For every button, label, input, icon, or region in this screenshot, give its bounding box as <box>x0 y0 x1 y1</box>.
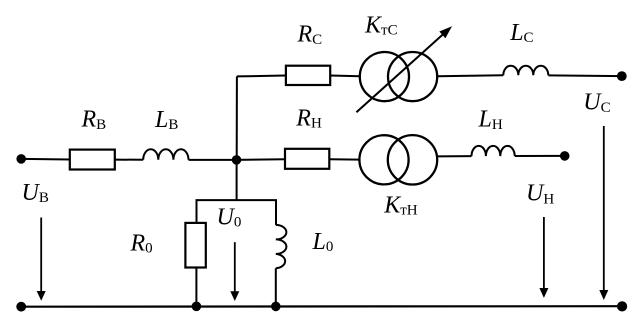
voltage arrow U_0 <box>234 242 236 292</box>
wire: L_C to medium-voltage terminal <box>548 74 622 77</box>
wire: riser from node A up to top branch <box>236 76 238 159</box>
svg-text:UН: UН <box>526 181 554 208</box>
inductor L_0 <box>276 225 287 268</box>
wire: node A down to shunt bar <box>236 160 238 200</box>
wire: R_C to K_tC <box>330 75 360 78</box>
transformer K_tH circle 2 <box>388 135 437 184</box>
wire: R_H to K_tH <box>329 158 359 160</box>
svg-text:LВ: LВ <box>154 107 178 133</box>
svg-text:UВ: UВ <box>22 180 49 206</box>
transformer K_tH circle 1 <box>359 135 408 184</box>
node: left input terminal <box>16 154 26 164</box>
svg-text:L0: L0 <box>312 229 334 255</box>
wire: K_tC to L_C <box>437 74 503 77</box>
node: L_0 rail junction <box>271 302 281 312</box>
svg-text:KтН: KтН <box>383 192 418 218</box>
svg-text:U0: U0 <box>217 204 242 230</box>
wire: left terminal to R_B <box>21 158 70 161</box>
regulation arrow through K_tC <box>356 33 444 112</box>
node: bottom right terminal <box>617 301 627 311</box>
wire: L_B to node A <box>189 159 237 161</box>
wire: L_0 to bottom rail <box>275 268 277 306</box>
svg-text:RВ: RВ <box>81 107 107 133</box>
wire: K_tH to L_H <box>437 155 471 157</box>
svg-text:R0: R0 <box>130 230 153 256</box>
inductor L_B <box>143 149 188 160</box>
wire: node A to R_H <box>237 158 286 161</box>
inductor L_H <box>472 146 515 156</box>
node: terminal U_C <box>617 71 627 81</box>
svg-text:LС: LС <box>509 20 533 46</box>
wire: L_H to low-voltage terminal <box>515 155 565 157</box>
inductor L_C <box>503 66 548 76</box>
bottom rail wire <box>21 305 622 308</box>
node: bottom left terminal <box>16 302 26 312</box>
resistor R_B <box>70 150 115 170</box>
resistor R_H <box>285 149 329 169</box>
wire: R_0 to bottom rail <box>195 268 197 307</box>
node: R_0 rail junction <box>192 302 202 312</box>
resistor R_C <box>286 66 330 85</box>
voltage arrow U_C <box>603 126 605 291</box>
svg-text:LН: LН <box>478 107 503 133</box>
node A junction dot <box>232 155 242 165</box>
svg-text:RН: RН <box>295 106 322 132</box>
voltage arrow U_B <box>40 218 42 292</box>
svg-text:KтС: KтС <box>364 12 398 38</box>
transformer K_tC circle 1 <box>360 52 409 101</box>
resistor R_0 <box>185 223 205 268</box>
transformer K_tC circle 2 <box>388 52 437 101</box>
wire: riser corner to R_C <box>237 75 286 78</box>
node: terminal U_H <box>560 151 570 161</box>
svg-text:UС: UС <box>583 90 610 116</box>
voltage arrow U_H <box>543 217 545 289</box>
wire: shunt top bar <box>197 200 277 225</box>
svg-text:RС: RС <box>297 22 323 48</box>
wire: R_B to L_B <box>115 159 143 161</box>
